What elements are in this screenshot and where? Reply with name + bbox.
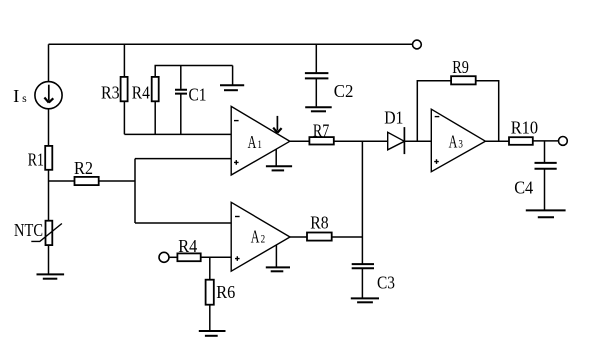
svg-text:C4: C4 bbox=[514, 177, 533, 197]
resistor R1 bbox=[45, 146, 52, 170]
resistor R2 with wires bbox=[49, 177, 136, 185]
wire to A1 plus input bbox=[135, 158, 231, 160]
wire top rail bbox=[49, 43, 413, 45]
ground below C3 bbox=[351, 298, 379, 302]
svg-text:R4: R4 bbox=[178, 236, 197, 256]
svg-text:1: 1 bbox=[257, 139, 262, 151]
op-amp A3 bbox=[431, 109, 485, 172]
resistor R3 bbox=[121, 77, 128, 101]
ground below C2 bbox=[305, 107, 332, 111]
svg-text:3: 3 bbox=[458, 139, 463, 151]
op-amp A1 bbox=[231, 106, 290, 175]
gain arrow on A1 bbox=[273, 116, 281, 133]
ground below NTC bbox=[37, 274, 65, 278]
svg-text:I: I bbox=[13, 86, 19, 106]
ground below R6 bbox=[199, 331, 226, 336]
current source Is bbox=[35, 82, 62, 109]
svg-text:R7: R7 bbox=[313, 120, 329, 140]
wire A1 output bbox=[290, 140, 310, 142]
wire R1 to NTC bbox=[48, 170, 50, 221]
svg-text:2: 2 bbox=[261, 234, 266, 246]
terminal input left bbox=[159, 252, 169, 262]
wire source to R1 bbox=[48, 109, 50, 146]
resistor R7 bbox=[309, 137, 333, 144]
wire R6 to ground bbox=[209, 305, 211, 331]
ground right of C1 bbox=[220, 66, 244, 91]
svg-text:C3: C3 bbox=[377, 273, 395, 293]
label A1 bbox=[248, 132, 262, 152]
wire D1 to A3 bbox=[404, 140, 431, 142]
diode D1 bbox=[388, 127, 405, 154]
resistor R8 bbox=[307, 233, 332, 241]
svg-text:R9: R9 bbox=[452, 57, 469, 77]
wire A2 output bbox=[290, 236, 307, 238]
wire R4 top link line bbox=[155, 66, 232, 77]
terminal right output bbox=[559, 137, 568, 146]
capacitor C1 bbox=[175, 66, 187, 135]
svg-text:R3: R3 bbox=[101, 83, 120, 103]
svg-text:R2: R2 bbox=[74, 158, 93, 178]
terminal top-right output bbox=[413, 40, 422, 49]
svg-text:R6: R6 bbox=[216, 282, 235, 302]
ground below A2 bbox=[266, 245, 290, 271]
resistor R4 input with wires bbox=[169, 253, 231, 261]
op-amp A2 bbox=[231, 202, 290, 271]
ground below A1 bbox=[266, 149, 292, 170]
svg-text:D1: D1 bbox=[384, 107, 403, 127]
label Is bbox=[13, 86, 27, 106]
svg-text:C2: C2 bbox=[334, 81, 354, 101]
wire NTC to ground bbox=[48, 245, 50, 274]
label A2 bbox=[251, 227, 265, 247]
wire A3 output bbox=[485, 140, 509, 142]
wire to A2 minus input bbox=[135, 222, 231, 224]
capacitor C3 bbox=[352, 264, 374, 298]
wire node to R6 bbox=[209, 257, 211, 279]
ground below C4 bbox=[526, 210, 566, 217]
wire R3 bottom bbox=[123, 101, 125, 134]
resistor R6 bbox=[206, 280, 214, 305]
svg-text:A: A bbox=[251, 227, 260, 247]
capacitor C2 bbox=[305, 44, 329, 106]
wire R4 bottom bbox=[154, 101, 156, 134]
wire rail down to current source bbox=[48, 44, 50, 81]
capacitor C4 bbox=[535, 141, 557, 210]
wire R7 to D1 bbox=[334, 140, 388, 142]
svg-text:R1: R1 bbox=[28, 149, 44, 169]
thermistor NTC bbox=[31, 221, 62, 245]
svg-text:NTC: NTC bbox=[14, 220, 43, 240]
svg-text:R10: R10 bbox=[511, 118, 538, 138]
resistor R10 bbox=[509, 137, 533, 145]
wire node vertical D1 line to C3 bbox=[361, 141, 363, 264]
label A3 bbox=[449, 132, 463, 152]
wire R8 to node bbox=[332, 236, 363, 238]
svg-text:R4: R4 bbox=[132, 83, 150, 103]
svg-text:A: A bbox=[449, 132, 458, 152]
wire R9 feedback loop bbox=[417, 81, 498, 142]
svg-text:A: A bbox=[248, 132, 257, 152]
wire rail down to R3 bbox=[123, 44, 125, 77]
resistor R4 bbox=[152, 77, 159, 101]
svg-text:R8: R8 bbox=[310, 213, 328, 233]
wire minus bus to A1 bbox=[124, 133, 231, 135]
svg-text:C1: C1 bbox=[189, 85, 207, 105]
resistor R9 bbox=[451, 76, 476, 84]
wire R10 to terminal bbox=[533, 140, 559, 142]
svg-text:s: s bbox=[22, 93, 27, 105]
wire vertical node between A1+ and A2- bbox=[134, 159, 136, 223]
